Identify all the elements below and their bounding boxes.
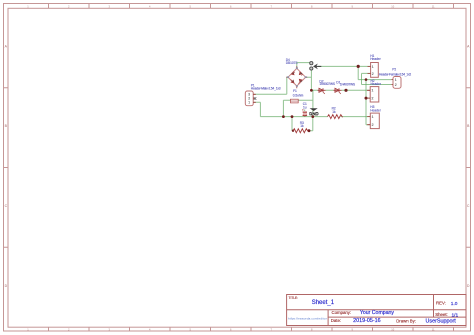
wire fuse left to rail bbox=[283, 100, 290, 116]
connector P1 bbox=[245, 91, 256, 106]
svg-text:1: 1 bbox=[372, 89, 374, 93]
svg-text:Header: Header bbox=[370, 108, 381, 112]
svg-text:Header-Female-2.54_1x2: Header-Female-2.54_1x2 bbox=[379, 72, 411, 76]
wire R3 legs bbox=[292, 117, 313, 131]
no-connect X on P1 pin2 bbox=[254, 97, 257, 100]
svg-text:UserSupport: UserSupport bbox=[426, 319, 457, 325]
label C1 bbox=[303, 102, 307, 109]
svg-text:Sheet_1: Sheet_1 bbox=[312, 300, 335, 306]
wire bridge top to plug bbox=[297, 63, 310, 69]
wire diode row bbox=[311, 89, 370, 91]
AC plug (two sockets + arrow) bbox=[310, 62, 322, 70]
connector P2 bbox=[392, 77, 402, 89]
wire C1 stubs bbox=[304, 110, 306, 117]
label H1 bbox=[370, 54, 381, 61]
title block bbox=[287, 295, 466, 326]
diode D1 bbox=[334, 88, 342, 94]
svg-text:TITLE:: TITLE: bbox=[289, 296, 299, 300]
svg-text:Company:: Company: bbox=[332, 310, 352, 315]
bridge rectifier D4 bbox=[286, 66, 307, 88]
bridge diode lower-left bbox=[291, 80, 294, 83]
svg-text:Header-Male-2.54_1x3: Header-Male-2.54_1x3 bbox=[251, 87, 281, 91]
svg-text:1/1: 1/1 bbox=[452, 312, 459, 318]
bridge diode lower-right bbox=[298, 79, 302, 83]
ground bbox=[310, 108, 319, 115]
wire plug bottom / bridge right down to diode row and GND rail bbox=[298, 70, 313, 117]
svg-text:1: 1 bbox=[248, 101, 250, 105]
svg-text:2019-05-16: 2019-05-16 bbox=[353, 318, 381, 324]
label R3 bbox=[300, 121, 304, 128]
wire P1 pin3 to bridge left bbox=[253, 77, 288, 94]
wire arrow tail to H1 pin1 bbox=[318, 65, 371, 67]
svg-text:1u: 1u bbox=[303, 106, 307, 110]
label D4 bbox=[286, 58, 298, 65]
label H3 bbox=[370, 105, 381, 112]
wire bottom rail right of R2 to H3 pin1 bbox=[341, 116, 371, 118]
bridge diode upper-right bbox=[299, 72, 302, 76]
svg-text:2: 2 bbox=[372, 72, 374, 76]
svg-text:2: 2 bbox=[395, 83, 397, 87]
svg-text:0.5ohm: 0.5ohm bbox=[293, 94, 304, 98]
svg-text:2: 2 bbox=[372, 123, 374, 127]
svg-text:Your Company: Your Company bbox=[360, 310, 395, 316]
svg-text:Sheet:: Sheet: bbox=[435, 312, 447, 317]
label D2 bbox=[319, 79, 335, 86]
capacitor C1 bbox=[302, 109, 307, 116]
svg-text:REV:: REV: bbox=[436, 301, 446, 306]
svg-text:1k: 1k bbox=[300, 124, 304, 128]
resistor R3 bbox=[293, 129, 308, 133]
wire H1 pin2 to P2 pin2 bbox=[362, 73, 392, 84]
svg-text:1k: 1k bbox=[332, 110, 336, 114]
label P2 bbox=[379, 68, 411, 77]
label F1 bbox=[293, 89, 304, 97]
header H1 bbox=[368, 63, 379, 78]
svg-text:1: 1 bbox=[372, 65, 374, 69]
svg-text:DB107S: DB107S bbox=[286, 61, 298, 65]
fuse F1 bbox=[291, 99, 299, 103]
svg-text:2: 2 bbox=[372, 97, 374, 101]
resistor R2 bbox=[328, 115, 343, 119]
svg-text:1: 1 bbox=[372, 115, 374, 119]
header H2 bbox=[367, 87, 379, 102]
frame zone letters bbox=[5, 45, 470, 289]
svg-text:Drawn By:: Drawn By: bbox=[396, 318, 416, 323]
wire vertical to H2 pin2 and H3 pin2 bbox=[366, 80, 370, 125]
svg-text:1N4007WS: 1N4007WS bbox=[340, 83, 355, 87]
svg-text:1N4007WS: 1N4007WS bbox=[319, 82, 335, 86]
svg-text:Date:: Date: bbox=[331, 318, 341, 323]
svg-text:Header: Header bbox=[370, 57, 381, 61]
diode D2 bbox=[318, 88, 326, 94]
bridge diode upper-left bbox=[291, 72, 295, 75]
header H3 bbox=[367, 113, 379, 129]
label H2 bbox=[371, 79, 382, 86]
svg-text:1: 1 bbox=[395, 78, 397, 82]
svg-text:P2: P2 bbox=[392, 68, 396, 72]
label R2 bbox=[332, 106, 336, 114]
wire P1 pin1 to bottom rail bbox=[253, 102, 327, 116]
junction dots bbox=[282, 65, 368, 132]
svg-text:Header: Header bbox=[371, 82, 382, 86]
label P1 bbox=[251, 83, 281, 90]
label D1 bbox=[336, 80, 355, 86]
wire net down to P2 pin1 bbox=[358, 66, 391, 79]
svg-text:htfps:IIeasyeda.comIeditor: htfps:IIeasyeda.comIeditor bbox=[288, 317, 327, 321]
svg-text:1.0: 1.0 bbox=[451, 301, 458, 307]
